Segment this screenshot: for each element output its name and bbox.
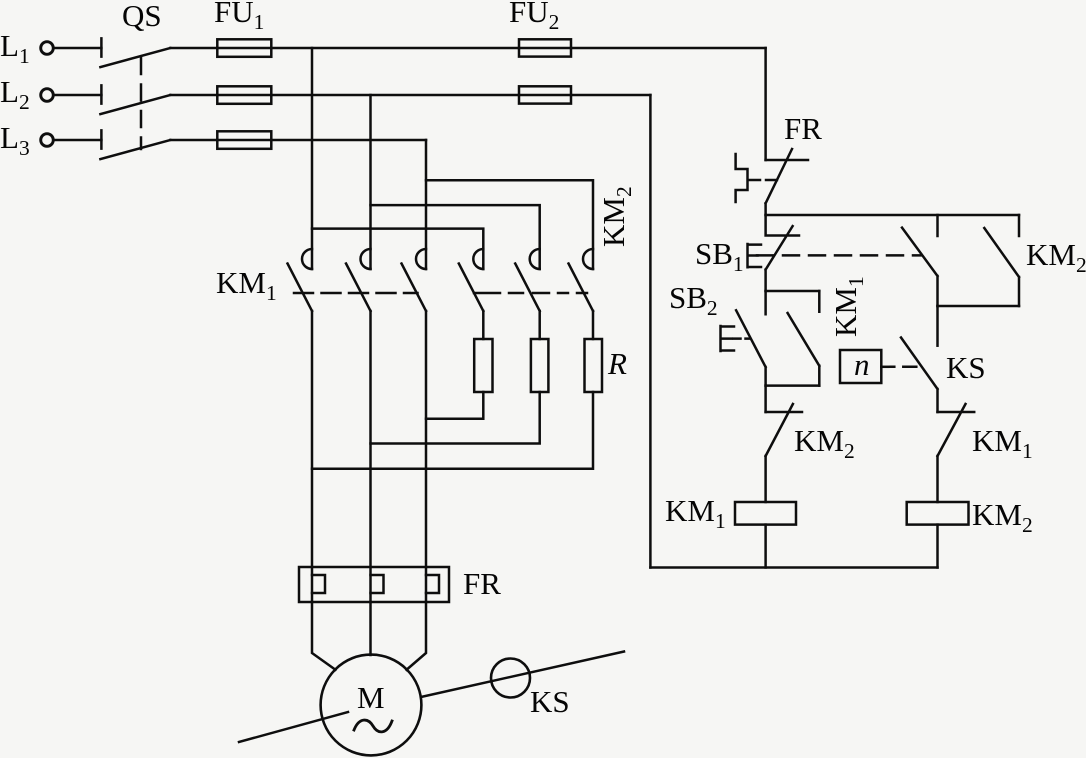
wire contact 4 to resistor xyxy=(482,311,485,339)
fuse FU1 pole2 xyxy=(217,94,271,97)
shaft line right segment xyxy=(421,652,624,698)
wire resistor2 to phase B xyxy=(371,392,540,444)
wire to KM2 NC interlock xyxy=(764,386,767,412)
motor tilde symbol xyxy=(354,720,392,732)
svg-text:KM1: KM1 xyxy=(972,423,1033,463)
contactor KM2 main contact 4 xyxy=(459,249,484,311)
wire phase B lower vertical xyxy=(369,311,372,602)
node L1 terminal xyxy=(41,42,54,55)
shaft line left segment xyxy=(239,712,348,742)
FR NC contact xyxy=(766,149,808,215)
FR thermal actuator xyxy=(736,154,748,202)
switch QS pole 1 xyxy=(100,38,170,67)
wire parallel branch top xyxy=(766,290,820,293)
wire phase A vertical xyxy=(311,48,314,269)
QS mechanical link (dashed) xyxy=(140,58,143,149)
svg-text:L2: L2 xyxy=(0,74,30,114)
svg-text:FR: FR xyxy=(784,111,822,146)
node L3 terminal xyxy=(41,134,54,147)
fuse FU2 pole1 xyxy=(519,47,571,50)
contactor KM1 aux latch contact xyxy=(788,291,820,386)
svg-text:QS: QS xyxy=(122,0,162,33)
svg-text:R: R xyxy=(607,346,627,381)
contactor KM2 NC interlock contact xyxy=(766,404,802,456)
node L2 terminal xyxy=(41,89,54,102)
contactor KM2 main contact 5 xyxy=(515,249,540,311)
resistor R element 2 xyxy=(531,339,549,392)
wire latch branch bottom xyxy=(938,305,1020,308)
wire QS to FU1 pole3 xyxy=(170,139,217,142)
wire to KM2 coil xyxy=(936,456,939,502)
FR heater element 3 xyxy=(426,575,439,593)
wire FU2 pole2 to control left rail xyxy=(571,94,650,97)
speed sensor n box xyxy=(840,350,881,383)
coil KM1 xyxy=(735,502,796,525)
motor M circle xyxy=(321,655,422,756)
wire KM1 coil to bottom rail xyxy=(764,525,767,568)
wire bottom rail xyxy=(650,566,937,569)
switch QS pole 3 xyxy=(100,130,170,159)
wire contact 5 to resistor xyxy=(538,311,541,339)
fuse FU1 pole1 xyxy=(217,47,271,50)
svg-text:L1: L1 xyxy=(0,28,30,68)
speed relay KS sensor circle xyxy=(491,659,530,698)
svg-text:SB2: SB2 xyxy=(669,280,718,320)
svg-text:KS: KS xyxy=(530,684,570,719)
wire L2 bus xyxy=(271,94,519,97)
fuse FU1 pole3 xyxy=(217,139,271,142)
wire FR to motor left xyxy=(312,602,336,670)
svg-text:L3: L3 xyxy=(0,120,30,160)
resistor R element 3 xyxy=(585,339,603,392)
wire branch to KM2 contact 5 xyxy=(371,205,540,269)
KM2 mechanical link (dashed) xyxy=(474,292,587,295)
FR heater element 2 xyxy=(371,575,384,593)
wire L3 bus xyxy=(271,139,426,142)
svg-text:n: n xyxy=(854,347,870,382)
svg-text:SB1: SB1 xyxy=(695,236,744,276)
wire phase C vertical xyxy=(425,140,428,269)
coil KM2 xyxy=(907,502,969,525)
svg-text:KS: KS xyxy=(946,350,986,385)
fuse FU2 pole2 xyxy=(519,94,571,97)
switch QS pole 2 xyxy=(100,85,170,114)
wire to KS contact xyxy=(936,306,939,346)
svg-text:KM1: KM1 xyxy=(216,265,277,305)
thermal relay FR heater box xyxy=(299,567,449,602)
pushbutton SB1 NO aux contact xyxy=(902,215,938,306)
svg-text:KM1: KM1 xyxy=(665,493,726,533)
svg-text:FU2: FU2 xyxy=(509,0,559,34)
resistor R element 1 xyxy=(474,339,492,392)
wire resistor3 to phase A xyxy=(312,392,593,469)
wire L2 terminal to QS xyxy=(54,94,101,97)
contactor KM1 main contact 3 xyxy=(402,249,427,311)
wire parallel branch bottom xyxy=(766,384,820,387)
SB1 actuator E symbol xyxy=(748,244,762,267)
wire left control rail xyxy=(649,95,652,568)
svg-text:KM1: KM1 xyxy=(828,276,868,337)
wire phase B vertical xyxy=(369,95,372,269)
wire QS to FU1 pole2 xyxy=(170,94,217,97)
pushbutton SB2 NO contact xyxy=(736,291,766,386)
wire FR to motor right xyxy=(407,602,427,670)
wire L1 bus xyxy=(271,47,519,50)
wire QS to FU1 pole1 xyxy=(170,47,217,50)
wire branch to KM2 contact 4 xyxy=(312,229,483,269)
SB2 actuator link (dashed) xyxy=(734,337,751,340)
wire control main from FU2 down xyxy=(764,48,767,160)
svg-text:M: M xyxy=(357,680,385,715)
SB2 actuator E symbol xyxy=(721,326,735,351)
wire phase A lower vertical xyxy=(311,311,314,602)
FR heater element 1 xyxy=(312,575,325,593)
wire L3 terminal to QS xyxy=(54,139,101,142)
svg-text:FU1: FU1 xyxy=(214,0,264,34)
wire branch to KM2 contact 6 xyxy=(426,180,593,269)
contactor KM2 main contact 6 xyxy=(569,249,594,311)
node control bus xyxy=(766,214,1019,217)
svg-text:KM2: KM2 xyxy=(596,186,636,247)
contactor KM1 main contact 2 xyxy=(346,249,371,311)
KM1 mechanical link (dashed) xyxy=(294,292,418,295)
wire resistor1 to phase C xyxy=(426,392,483,419)
contactor KM1 NC interlock contact xyxy=(938,404,975,456)
svg-text:FR: FR xyxy=(463,566,501,601)
wire phase C lower vertical xyxy=(425,311,428,602)
wire to KM1 coil xyxy=(764,456,767,502)
contactor KM1 main contact 1 xyxy=(288,249,313,311)
wire L1 terminal to QS xyxy=(54,47,101,50)
wire FU2 pole1 to control xyxy=(571,47,766,50)
FR actuator link (dashed) xyxy=(748,179,777,182)
SB1 link to KM2 aux (dashed) xyxy=(757,254,921,257)
wire contact 6 to resistor xyxy=(592,311,595,339)
n to KS link (dashed) xyxy=(881,366,919,369)
pushbutton SB1 NC contact xyxy=(766,215,799,291)
svg-text:KM2: KM2 xyxy=(1026,237,1086,277)
speed relay KS NO contact xyxy=(901,338,938,413)
wire FR to motor middle xyxy=(369,602,372,655)
svg-text:KM2: KM2 xyxy=(794,423,855,463)
svg-text:KM2: KM2 xyxy=(972,497,1033,537)
wire KM2 coil to bottom rail xyxy=(936,525,939,568)
contactor KM2 aux latch contact xyxy=(984,215,1019,306)
